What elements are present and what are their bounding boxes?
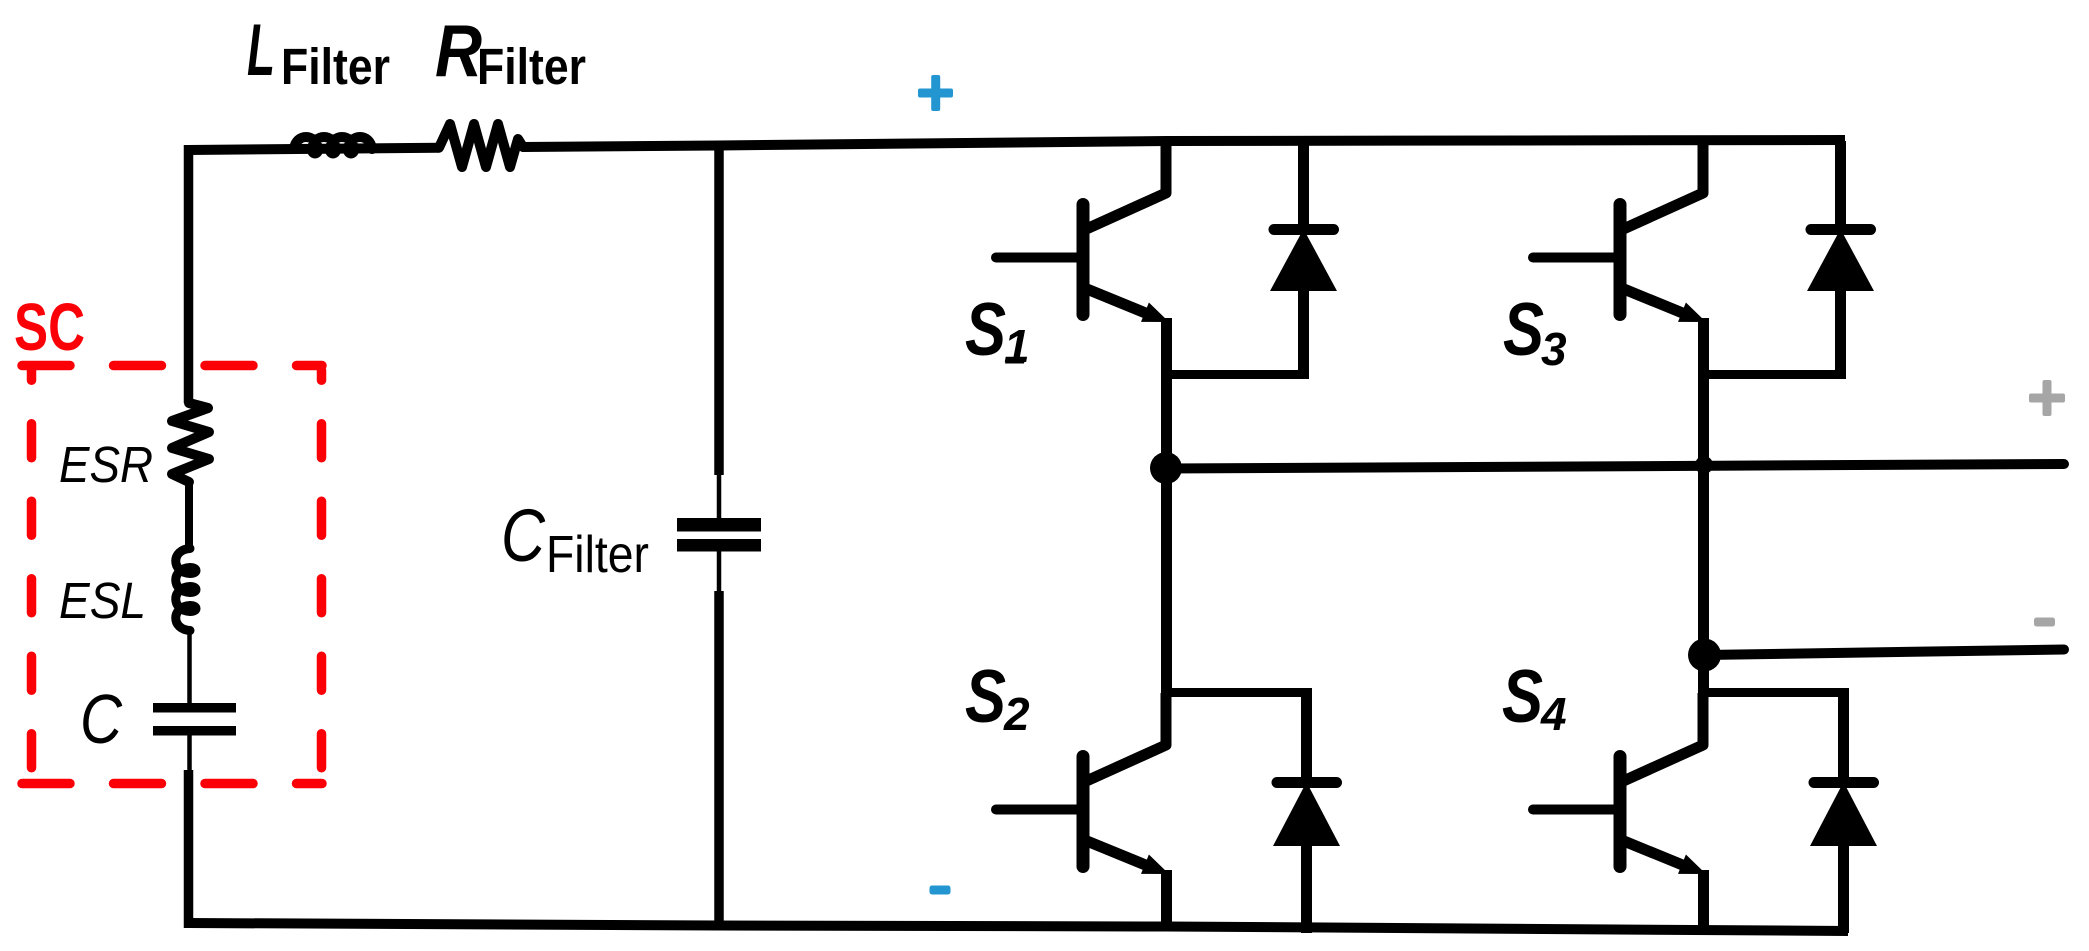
svg-text:Filter: Filter [281, 38, 390, 95]
wire: ESR to ESL [185, 482, 193, 546]
node B junction dot (S3/S4 midpoint) [1688, 639, 1721, 672]
diode D1 (antiparallel with S1) [1270, 141, 1337, 374]
wire: S4 collector to D4 cathode [1703, 688, 1849, 697]
svg-text:S: S [1502, 654, 1543, 738]
diode D2 (antiparallel with S2) [1273, 688, 1340, 933]
wire: CFilter branch upper [714, 141, 724, 475]
svg-text:ESL: ESL [59, 572, 146, 629]
diode D4 (antiparallel with S4) [1810, 688, 1877, 933]
transistor S1 (IGBT) [996, 141, 1169, 470]
output terminal plus label (gray) [2029, 380, 2065, 416]
svg-text:1: 1 [1004, 320, 1030, 372]
transistor S2 (IGBT) [996, 693, 1169, 926]
resistor ESR symbol [172, 403, 209, 482]
svg-text:S: S [965, 287, 1006, 371]
diode D3 (antiparallel with S3) [1807, 141, 1874, 374]
node A junction dot (S1/S2 midpoint) [1150, 452, 1182, 484]
wire: S3 emitter to D3 anode [1703, 370, 1846, 379]
wire: - output from node B [1705, 650, 2064, 656]
wire: S2 collector to D2 cathode [1166, 688, 1312, 697]
junction dot at crossing of + wire and S3/S4 leg [1695, 456, 1713, 474]
wire: top DC bus left segment [188, 148, 439, 150]
transistor S4 (IGBT) [1533, 693, 1706, 931]
svg-text:S: S [1503, 287, 1544, 371]
wire: bottom DC bus [188, 923, 1848, 931]
svg-text:R: R [435, 11, 482, 92]
wire: ESL to capacitor C (thin lead) [187, 631, 192, 704]
svg-text:ESR: ESR [59, 436, 153, 493]
node label: DC bus plus (blue) [918, 75, 953, 111]
wire: CFilter branch lower [717, 551, 722, 592]
svg-text:C: C [501, 494, 545, 577]
wire: S3 emitter leg down through + wire [1698, 440, 1709, 656]
svg-text:Filter: Filter [546, 526, 649, 584]
transistor S3 (IGBT) [1533, 141, 1706, 470]
output terminal minus label (gray) [2034, 618, 2055, 627]
wire: node B to S4 collector [1698, 655, 1709, 694]
wire: top DC bus middle and right segments [523, 140, 1845, 147]
SC supercap model dashed box [22, 366, 322, 784]
inductor LFilter symbol [294, 137, 372, 154]
svg-text:L: L [247, 10, 275, 91]
wire: C to bottom bus [187, 735, 192, 772]
wire: node A to S2 collector [1161, 468, 1172, 694]
svg-text:C: C [80, 680, 122, 758]
capacitor CFilter symbol [677, 518, 761, 532]
wire: left branch vertical (SC string) top segment [184, 145, 194, 403]
svg-text:3: 3 [1541, 323, 1567, 375]
wire: S1 emitter to D1 anode [1166, 370, 1309, 379]
svg-text:Filter: Filter [477, 38, 586, 95]
svg-text:SC: SC [14, 290, 85, 365]
svg-text:4: 4 [1540, 688, 1567, 740]
node label: DC bus minus (blue) [930, 886, 951, 895]
svg-text:S: S [965, 654, 1006, 738]
resistor RFilter symbol [439, 124, 523, 167]
inductor ESL symbol [176, 549, 196, 631]
wire: + output from node A [1166, 464, 2064, 469]
capacitor C symbol [153, 703, 236, 713]
svg-text:2: 2 [1003, 688, 1030, 740]
